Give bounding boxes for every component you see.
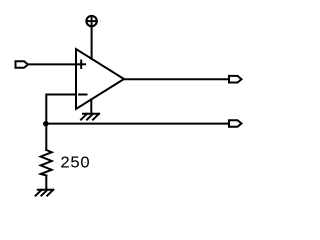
label 250 [60,154,90,173]
op-amp U1 [76,49,124,109]
ground (resistor) [36,190,54,196]
svg-text:250: 250 [60,154,90,173]
terminal OUT1 [229,76,242,83]
pin + marker [78,61,86,69]
power symbol V+ [86,16,96,26]
wire bottom to OUT2 [46,123,229,125]
wire inverting input L [46,95,76,125]
wire resistor to ground [45,176,47,190]
wire input [28,63,76,65]
terminal IN [16,61,29,68]
node junction [43,121,49,127]
resistor R1 [41,150,52,176]
terminal OUT2 [229,120,242,127]
wire junction to resistor [45,124,47,150]
ground (op-amp) [81,114,99,120]
wire power to op-amp [91,27,93,59]
wire op-amp V- to ground [90,100,92,114]
pin - marker [79,94,87,96]
wire output [124,78,229,80]
